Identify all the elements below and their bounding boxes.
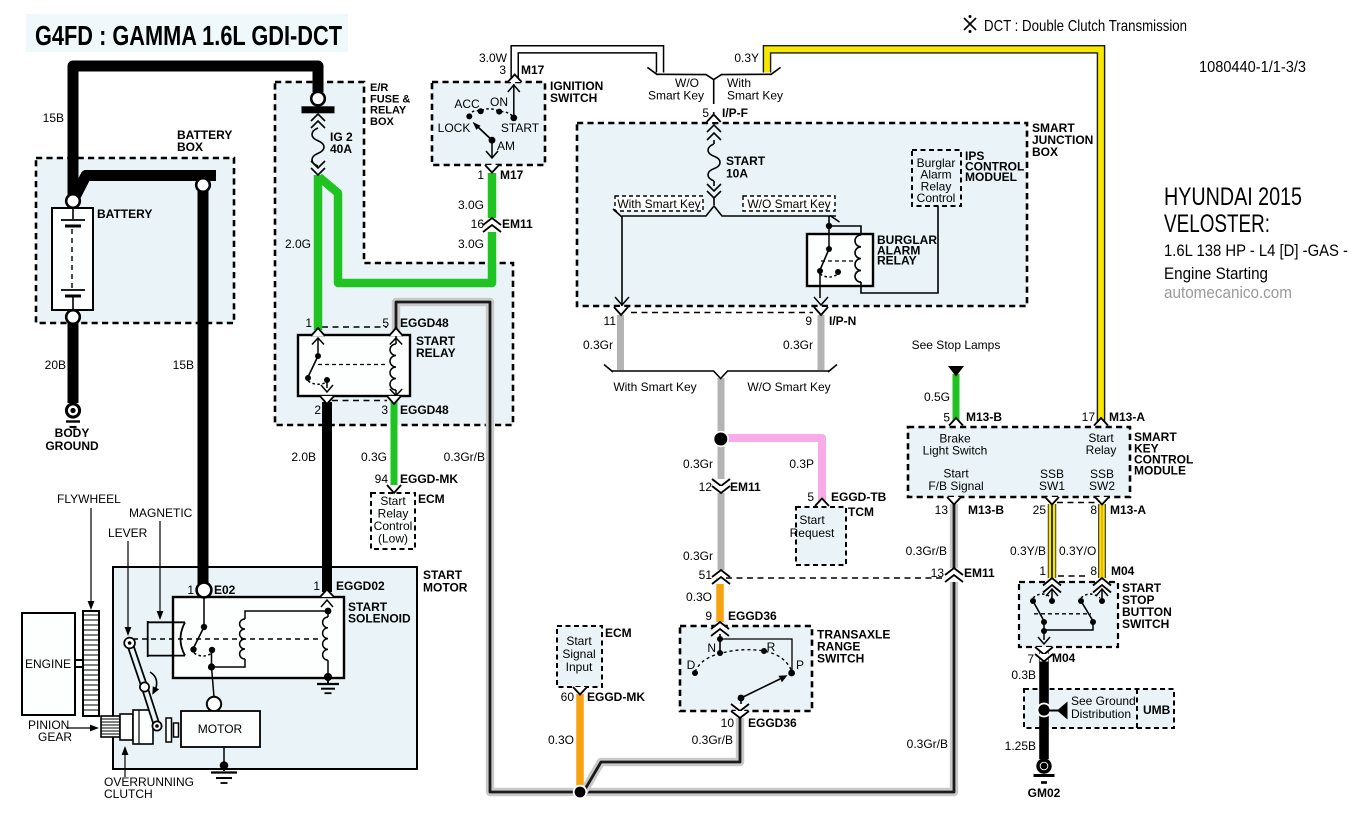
svg-text:EM11: EM11 (964, 566, 995, 580)
svg-text:EGGD-MK: EGGD-MK (400, 472, 458, 486)
svg-text:SWITCH: SWITCH (550, 91, 597, 105)
connector M04 pin1 (1043, 578, 1061, 593)
connector line M04 (1058, 575, 1088, 577)
svg-text:BATTERY: BATTERY (97, 207, 152, 221)
wire battery positive 15B to E/R box (73, 66, 318, 196)
svg-text:Input: Input (566, 660, 593, 674)
svg-text:9: 9 (805, 314, 812, 328)
svg-text:EGGD-MK: EGGD-MK (587, 690, 645, 704)
svg-text:3.0G: 3.0G (458, 237, 484, 251)
connector EGGD48 pin2 (320, 396, 334, 404)
motor terminal circle (207, 667, 221, 711)
battery circle top (66, 194, 80, 208)
wire 0.3Gr/B start relay pin5 to ground bus to EM11 13 (396, 302, 954, 792)
svg-text:0.3P: 0.3P (789, 457, 814, 471)
connector EM11 pin13 (945, 568, 963, 582)
wire 0.3O EM11 51 to EGGD36 9 (716, 578, 724, 627)
svg-text:Start: Start (566, 634, 592, 648)
connector M04 pin7 (1035, 647, 1053, 662)
pinion gear (101, 716, 120, 737)
svg-text:20B: 20B (45, 358, 66, 372)
svg-text:5: 5 (382, 316, 389, 330)
burglar alarm relay switch (817, 226, 856, 298)
svg-text:N: N (707, 641, 716, 655)
svg-text:LEVER: LEVER (108, 526, 148, 540)
wire 0.3B / 1.25B M04 pin7 to GM02 (1039, 652, 1049, 759)
svg-text:13: 13 (931, 566, 945, 580)
svg-text:Light Switch: Light Switch (923, 444, 988, 458)
wire 0.3Gr/B EGGD36 10 to ground bus (584, 713, 740, 791)
connector line I/P-N (631, 312, 813, 314)
battery box feed circle (196, 178, 210, 192)
svg-text:Request: Request (790, 526, 835, 540)
arrow I/P-N pin9 (814, 297, 828, 305)
svg-text:SWITCH: SWITCH (817, 652, 864, 666)
svg-text:0.5G: 0.5G (924, 390, 950, 404)
svg-text:17: 17 (1082, 410, 1096, 424)
connector M13-B pin5 (949, 418, 963, 426)
connector EM11 pin51 (712, 570, 730, 584)
connector I/P pin11 (614, 307, 628, 315)
start solenoid hold-in coil (212, 611, 329, 667)
start solenoid box (173, 597, 344, 678)
svg-text:EGGD02: EGGD02 (336, 579, 385, 593)
svg-text:SW2: SW2 (1089, 479, 1115, 493)
svg-text:With Smart Key: With Smart Key (613, 380, 696, 394)
svg-text:SWITCH: SWITCH (1122, 617, 1169, 631)
lever label arrow (125, 541, 132, 636)
svg-text:5: 5 (807, 490, 814, 504)
svg-text:ON: ON (490, 95, 508, 109)
connector EGGD-MK pin94 (387, 485, 401, 493)
engine box (22, 613, 83, 715)
svg-text:MODULE: MODULE (1134, 464, 1186, 478)
option branch with/without smart key (613, 198, 840, 306)
connector EGGD02 pin1 (320, 590, 334, 608)
svg-text:SW1: SW1 (1039, 479, 1065, 493)
fuse holder T-bar (302, 106, 335, 113)
svg-text:UMB: UMB (1143, 703, 1171, 717)
svg-text:3.0G: 3.0G (458, 198, 484, 212)
svg-text:2.0B: 2.0B (291, 450, 316, 464)
svg-text:1.25B: 1.25B (1005, 739, 1036, 753)
connector EGGD48 pin3 (387, 396, 401, 404)
svg-text:ECM: ECM (605, 626, 632, 640)
svg-text:0.3Y: 0.3Y (734, 51, 759, 65)
ECM box (start signal input) (557, 626, 602, 687)
solenoid plunger mech link (133, 621, 320, 657)
svg-text:5: 5 (702, 106, 709, 120)
svg-text:CLUTCH: CLUTCH (104, 787, 153, 801)
svg-text:1.6L 138 HP - L4 [D] -GAS -: 1.6L 138 HP - L4 [D] -GAS - (1164, 241, 1348, 260)
svg-text:R: R (767, 640, 776, 654)
svg-text:0.3Gr/B: 0.3Gr/B (692, 733, 733, 747)
svg-text:Control: Control (917, 191, 956, 205)
fuse IG 2 40A (311, 114, 325, 175)
wire 3.0W white ignition to W/O smart key join (515, 49, 660, 78)
start relay coil (390, 336, 402, 396)
svg-text:GM02: GM02 (1028, 786, 1061, 800)
connector line M13-A (1057, 502, 1097, 504)
svg-text:1080440-1/1-3/3: 1080440-1/1-3/3 (1199, 59, 1306, 76)
connector line EGGD48 top (322, 326, 387, 328)
connector EGGD48 pin5 (389, 328, 403, 336)
start solenoid switch (190, 597, 215, 671)
svg-text:16: 16 (471, 217, 485, 231)
svg-text:M13-A: M13-A (1110, 503, 1146, 517)
svg-text:GROUND: GROUND (45, 439, 99, 453)
wire 0.3Y/B SSB SW1 to M04 1 (1050, 504, 1054, 580)
svg-text:1: 1 (313, 579, 320, 593)
svg-text:25: 25 (1033, 503, 1047, 517)
see ground distribution arrow (1049, 702, 1068, 720)
wire 0.3O ECM EGGD-MK 60 to ground bus (576, 694, 584, 791)
transaxle range switch box (680, 626, 812, 711)
svg-text:ACC: ACC (454, 97, 480, 111)
svg-text:Relay: Relay (1086, 443, 1117, 457)
svg-text:EGGD-TB: EGGD-TB (831, 490, 887, 504)
svg-text:RELAY: RELAY (370, 105, 407, 117)
magnetic label arrow (157, 521, 164, 620)
connector EGGD-MK pin60 (573, 687, 587, 695)
title highlight (26, 14, 348, 52)
burglar alarm relay junction (826, 223, 861, 235)
svg-text:M13-B: M13-B (966, 410, 1002, 424)
svg-text:ECM: ECM (418, 492, 445, 506)
svg-text:0.3O: 0.3O (548, 733, 574, 747)
start stop button switch right (1034, 589, 1108, 644)
lever rotation arrow (150, 672, 159, 695)
svg-text:0.3B: 0.3B (1011, 668, 1036, 682)
svg-text:FUSE &: FUSE & (370, 93, 410, 105)
fuse START 10A (707, 125, 721, 198)
svg-text:94: 94 (375, 472, 389, 486)
start stop button switch left (1030, 589, 1058, 640)
svg-text:M04: M04 (1111, 564, 1135, 578)
connector EM11 pin12 (712, 479, 730, 493)
wire battery to second feed 15B (75, 176, 216, 198)
E/R fuse & relay box (275, 82, 513, 425)
arrow I/P pin11 (615, 297, 629, 305)
svg-text:10: 10 (721, 716, 735, 730)
UMB box (1024, 689, 1174, 728)
svg-text:3: 3 (381, 403, 388, 417)
start motor box (113, 567, 417, 769)
svg-text:0.3Gr/B: 0.3Gr/B (907, 737, 948, 751)
motor box (181, 711, 260, 747)
connector M04 pin8 (1093, 578, 1111, 593)
connector M13-A pin8 (1095, 497, 1109, 505)
svg-text:Signal: Signal (562, 647, 595, 661)
wire 2.0G fuse IG2 to start relay pin1 (314, 175, 323, 330)
svg-text:W/O Smart Key: W/O Smart Key (747, 380, 830, 394)
IPS control module box (912, 150, 961, 206)
svg-text:0.3Gr: 0.3Gr (683, 457, 713, 471)
svg-text:40A: 40A (330, 142, 352, 156)
svg-text:MODUEL: MODUEL (965, 170, 1017, 184)
svg-text:F/B Signal: F/B Signal (928, 479, 983, 493)
wire 15B battery box to E02 (198, 189, 209, 584)
svg-text:1: 1 (1039, 564, 1046, 578)
solenoid ground (317, 678, 339, 693)
svg-text:0.3Gr/B: 0.3Gr/B (906, 544, 947, 558)
svg-text:START: START (501, 121, 540, 135)
svg-text:VELOSTER:: VELOSTER: (1164, 210, 1270, 238)
svg-text:MAGNETIC: MAGNETIC (129, 506, 193, 520)
connector M17 pin1 (485, 165, 499, 173)
ignition switch contacts (466, 84, 520, 158)
svg-text:15B: 15B (173, 358, 194, 372)
connector I/P-F pin5 (707, 112, 721, 124)
motor ground (211, 747, 237, 783)
connector M17 pin3 (508, 75, 522, 83)
svg-text:Smart Key: Smart Key (648, 89, 704, 103)
svg-text:2: 2 (314, 403, 321, 417)
connector EM11 pin16 (483, 218, 501, 232)
svg-text:EGGD36: EGGD36 (728, 609, 777, 623)
connector line EGGD48 bottom (332, 400, 387, 402)
connector M13-B pin13 (947, 497, 961, 505)
svg-text:Smart Key: Smart Key (727, 89, 783, 103)
svg-text:0.3Gr/B: 0.3Gr/B (444, 450, 485, 464)
svg-text:9: 9 (705, 609, 712, 623)
connector EGGD48 pin1 (311, 328, 325, 336)
connector M13-A pin25 (1045, 497, 1059, 505)
overrunning clutch (120, 710, 179, 744)
svg-text:11: 11 (604, 314, 617, 328)
connector M13-A pin17 (1094, 418, 1108, 426)
svg-text:EM11: EM11 (502, 217, 533, 231)
TCM box (796, 507, 846, 565)
svg-text:1: 1 (187, 583, 194, 597)
svg-text:M13-A: M13-A (1109, 410, 1145, 424)
UMB junction dot (1037, 703, 1052, 718)
svg-text:13: 13 (935, 503, 949, 517)
wire 0.3Gr/B start F/B signal M13-B 13 to EM11 13 (950, 504, 958, 570)
svg-text:BOX: BOX (177, 140, 203, 154)
svg-text:0.3Gr: 0.3Gr (783, 338, 813, 352)
smart key control module box (908, 427, 1130, 497)
burglar alarm relay coil (855, 206, 938, 293)
svg-text:2.0G: 2.0G (285, 237, 311, 251)
svg-text:0.3Y/O: 0.3Y/O (1059, 544, 1096, 558)
wire 0.3G relay pin3 to ECM EGGD-MK 94 (391, 401, 398, 490)
wire 0.3Gr I/P-N 9 w/o smart key (818, 315, 825, 370)
transaxle range switch contacts (692, 634, 795, 706)
svg-text:I/P-F: I/P-F (722, 106, 748, 120)
battery box (36, 158, 234, 323)
w/o smart key label box (743, 196, 835, 211)
wire 2.0B relay pin2 to start solenoid EGGD02 (322, 402, 332, 592)
svg-text:0.3G: 0.3G (361, 450, 387, 464)
svg-text:BODY: BODY (55, 426, 90, 440)
connector EGGD36 pin9 (711, 622, 729, 636)
svg-text:Engine Starting: Engine Starting (1164, 264, 1268, 283)
svg-text:MOTOR: MOTOR (198, 722, 243, 736)
svg-text:TCM: TCM (848, 505, 874, 519)
svg-text:1: 1 (305, 316, 312, 330)
wire 0.3Gr I/P 11 with smart key (617, 315, 624, 370)
svg-text:Start: Start (799, 513, 825, 527)
E/R box input circle (311, 92, 325, 106)
svg-text:GEAR: GEAR (38, 730, 72, 744)
svg-text:BOX: BOX (370, 116, 395, 128)
svg-text:RELAY: RELAY (877, 254, 917, 268)
svg-text:7: 7 (1027, 652, 1034, 666)
svg-text:Distribution: Distribution (1071, 707, 1131, 721)
wire 0.3P pink to EGGD-TB 5 TCM (723, 438, 822, 502)
svg-text:12: 12 (699, 480, 713, 494)
svg-text:M17: M17 (500, 168, 524, 182)
svg-text:SOLENOID: SOLENOID (348, 612, 411, 626)
start relay box (298, 335, 410, 396)
svg-text:HYUNDAI 2015: HYUNDAI 2015 (1164, 183, 1302, 211)
svg-text:AM: AM (497, 139, 515, 153)
svg-text:With Smart Key: With Smart Key (617, 197, 700, 211)
pinion gear label arrow (68, 725, 99, 732)
svg-text:10A: 10A (726, 167, 748, 181)
svg-text:60: 60 (561, 690, 575, 704)
svg-text:EGGD48: EGGD48 (400, 403, 449, 417)
connector EGGD36 pin10 (731, 704, 749, 718)
with smart key label box (615, 196, 703, 211)
svg-text:(Low): (Low) (378, 532, 408, 546)
svg-text:LOCK: LOCK (438, 121, 471, 135)
connector line EM11 (726, 577, 944, 579)
start solenoid pull-in coil (323, 608, 332, 681)
ECM box (start relay control) (371, 493, 415, 549)
svg-text:I/P-N: I/P-N (829, 314, 856, 328)
svg-text:BOX: BOX (1032, 145, 1058, 159)
svg-text:RELAY: RELAY (416, 346, 456, 360)
wire 0.3Y/O SSB SW2 to M04 8 (1098, 504, 1106, 580)
wire 0.5G see stop lamps to M13-B 5 (953, 374, 960, 422)
svg-text:0.3O: 0.3O (686, 590, 712, 604)
svg-text:0.3Gr: 0.3Gr (583, 338, 613, 352)
overrunning clutch label arrow (122, 746, 129, 777)
svg-text:1: 1 (477, 168, 484, 182)
reference mark (964, 15, 976, 33)
wire 20B battery to body ground (68, 322, 79, 403)
svg-text:5: 5 (943, 411, 950, 425)
see stop lamps arrow (948, 366, 964, 377)
svg-text:EGGD36: EGGD36 (748, 716, 797, 730)
svg-text:FLYWHEEL: FLYWHEEL (57, 492, 121, 506)
svg-text:8: 8 (1090, 564, 1097, 578)
shift lever (124, 638, 161, 731)
burglar alarm relay box (807, 234, 873, 286)
connector EGGD-TB pin5 (815, 499, 829, 507)
option join W/O-With smart key to I/P-F (647, 67, 780, 104)
junction dot ground bus (573, 785, 587, 799)
body ground (66, 404, 80, 427)
battery circle bottom (66, 310, 80, 324)
svg-text:ENGINE: ENGINE (25, 657, 71, 671)
svg-text:W/O Smart Key: W/O Smart Key (747, 197, 830, 211)
svg-text:M17: M17 (521, 63, 545, 77)
svg-text:0.3Gr: 0.3Gr (683, 549, 713, 563)
svg-text:EM11: EM11 (730, 480, 761, 494)
svg-text:E/R: E/R (370, 82, 388, 94)
svg-text:E02: E02 (214, 583, 236, 597)
svg-text:3: 3 (499, 63, 506, 77)
battery BATTERY (52, 208, 93, 310)
svg-text:MOTOR: MOTOR (423, 581, 468, 595)
flywheel label arrow (88, 508, 95, 610)
start stop button switch box (1019, 582, 1118, 647)
option join with/wo smart key grays (604, 365, 837, 379)
svg-text:15B: 15B (43, 111, 64, 125)
svg-text:See Ground: See Ground (1071, 694, 1136, 708)
flywheel (83, 611, 99, 716)
ground GM02 (1034, 760, 1055, 783)
svg-text:See Stop Lamps: See Stop Lamps (912, 338, 1001, 352)
wire 0.3Y yellow with-smart-key join to M13-A 17 (767, 49, 1101, 422)
svg-text:8: 8 (1090, 503, 1097, 517)
wire 3.0G fuse branch to ignition switch M17 pin1 (319, 173, 492, 283)
connector I/P-N pin9 (814, 307, 828, 315)
svg-text:DCT : Double Clutch Transmissi: DCT : Double Clutch Transmission (984, 18, 1187, 35)
svg-text:automecanico.com: automecanico.com (1164, 283, 1292, 302)
svg-text:0.3Y/B: 0.3Y/B (1010, 544, 1046, 558)
svg-text:P: P (796, 658, 804, 672)
wire 0.3Gr join to EM11 12 to EGGD36 (718, 378, 725, 570)
ignition switch box (432, 82, 545, 165)
svg-text:M13-B: M13-B (968, 503, 1004, 517)
svg-text:EGGD48: EGGD48 (400, 316, 449, 330)
start relay switch (305, 338, 388, 392)
svg-text:G4FD : GAMMA 1.6L GDI-DCT: G4FD : GAMMA 1.6L GDI-DCT (35, 20, 342, 51)
svg-text:M04: M04 (1052, 651, 1076, 665)
E02 circle (197, 583, 212, 598)
smart junction box (577, 123, 1027, 306)
junction dot gray/pink (713, 431, 729, 447)
svg-text:51: 51 (699, 568, 713, 582)
svg-text:D: D (687, 658, 696, 672)
